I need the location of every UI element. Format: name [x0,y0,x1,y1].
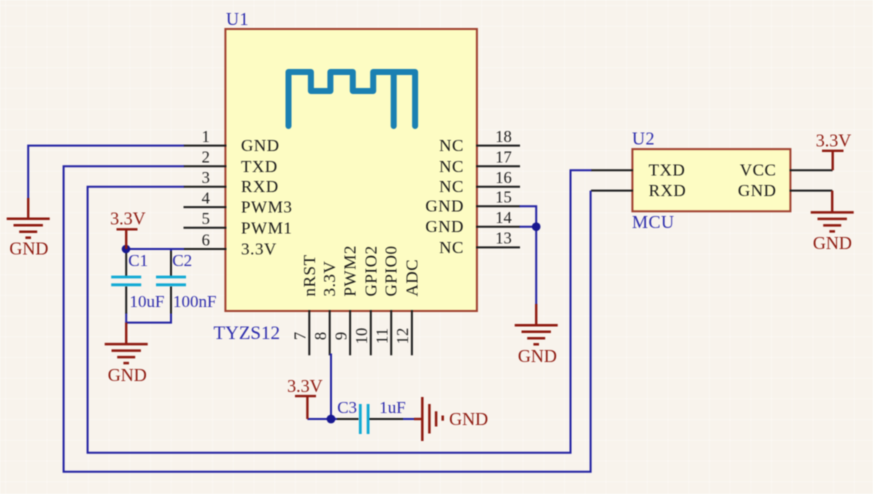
svg-text:15: 15 [495,188,512,207]
svg-text:C1: C1 [128,251,148,270]
svg-text:6: 6 [202,230,210,249]
svg-text:GND: GND [425,197,464,216]
svg-text:nRST: nRST [300,254,319,296]
svg-text:10: 10 [352,328,371,345]
svg-text:17: 17 [495,148,512,167]
svg-text:NC: NC [439,157,464,176]
svg-text:U2: U2 [632,129,655,149]
svg-text:3.3V: 3.3V [110,209,146,229]
svg-text:GPIO0: GPIO0 [382,245,401,296]
svg-text:13: 13 [495,229,512,248]
svg-text:10uF: 10uF [130,292,165,311]
svg-text:NC: NC [439,238,464,257]
svg-text:GND: GND [518,346,557,366]
svg-text:GND: GND [108,365,147,385]
svg-text:3.3V: 3.3V [287,376,323,396]
svg-text:GPIO2: GPIO2 [361,245,380,296]
svg-text:C2: C2 [172,251,192,270]
svg-text:9: 9 [331,332,350,340]
svg-text:RXD: RXD [649,181,687,200]
svg-text:18: 18 [495,127,512,146]
svg-text:1: 1 [202,127,210,146]
svg-text:PWM1: PWM1 [241,218,293,237]
svg-text:1uF: 1uF [379,398,405,417]
svg-text:7: 7 [291,332,310,340]
svg-text:100nF: 100nF [173,292,216,311]
svg-text:NC: NC [439,136,464,155]
svg-text:VCC: VCC [740,161,777,180]
svg-text:3: 3 [202,168,210,187]
svg-text:MCU: MCU [632,212,675,232]
svg-text:14: 14 [495,208,512,227]
svg-text:PWM3: PWM3 [241,198,293,217]
svg-text:16: 16 [495,168,512,187]
svg-text:8: 8 [311,332,330,340]
svg-text:U1: U1 [226,9,249,29]
svg-text:4: 4 [202,188,210,207]
svg-text:RXD: RXD [241,177,279,196]
svg-text:GND: GND [813,233,852,253]
svg-text:2: 2 [202,148,210,167]
svg-text:GND: GND [738,181,777,200]
svg-text:GND: GND [425,217,464,236]
svg-text:GND: GND [241,136,280,155]
svg-text:NC: NC [439,177,464,196]
svg-text:12: 12 [393,328,412,345]
svg-text:3.3V: 3.3V [320,260,339,296]
svg-text:3.3V: 3.3V [816,131,852,151]
svg-text:TXD: TXD [649,161,686,180]
svg-text:TYZS12: TYZS12 [214,323,281,344]
svg-text:TXD: TXD [241,157,278,176]
svg-text:11: 11 [372,328,391,344]
svg-text:ADC: ADC [402,259,421,297]
svg-text:GND: GND [9,239,48,259]
svg-text:3.3V: 3.3V [241,240,277,259]
svg-text:GND: GND [449,409,488,429]
svg-text:PWM2: PWM2 [341,245,360,297]
svg-text:5: 5 [202,209,210,228]
svg-text:C3: C3 [337,398,357,417]
